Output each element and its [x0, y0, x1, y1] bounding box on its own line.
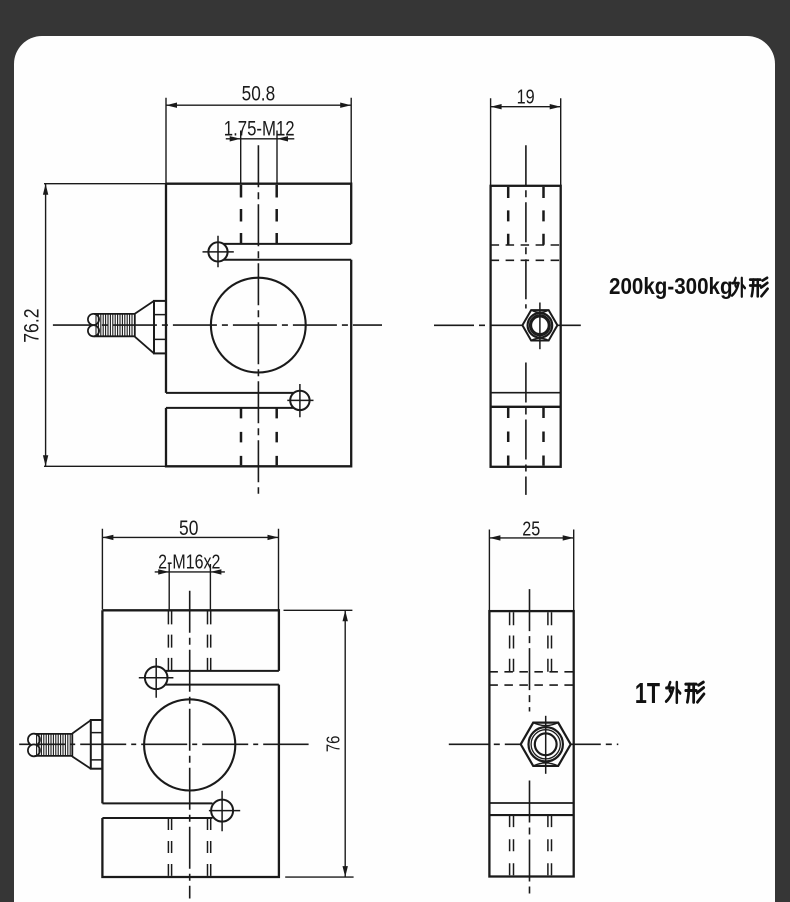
rod junction line — [134, 314, 136, 338]
nut chamfer arcs — [533, 723, 558, 766]
side body rect — [491, 186, 561, 467]
big center hole — [144, 699, 235, 790]
side horizontal center line — [449, 743, 619, 745]
big center hole — [211, 278, 306, 373]
dimension 76 extension lines — [284, 610, 354, 877]
dimension 25 arrows — [489, 535, 573, 540]
rod collar — [91, 720, 103, 769]
svg-text:19: 19 — [517, 86, 535, 108]
dimension 76 line — [344, 610, 346, 877]
nut hexagon — [522, 310, 557, 340]
dimension 50.8 line — [166, 104, 351, 106]
dimension 76.2 line — [45, 184, 47, 467]
dimension 50 extension lines — [102, 529, 278, 610]
upper slot hole crosshair — [203, 236, 234, 267]
dimension 19 extension lines — [491, 98, 561, 185]
threaded hole hidden lines bottom (side) — [508, 408, 543, 466]
upper slot hole crosshair — [139, 658, 174, 698]
rod tip arcs — [88, 314, 99, 325]
side body rect — [489, 611, 573, 876]
threaded hole hidden double lines bottom — [168, 818, 210, 876]
nut circles — [528, 313, 553, 338]
lower slot hole crosshair — [287, 384, 313, 417]
lower slot visible lines — [489, 802, 573, 804]
rod cone — [72, 720, 91, 769]
rod junction line — [71, 733, 73, 757]
dimension 19 arrows — [491, 104, 561, 109]
svg-text:76: 76 — [323, 736, 344, 752]
rod thread hatching — [96, 314, 132, 336]
threaded hole hidden lines top — [241, 185, 277, 244]
dimension 76 arrows — [343, 610, 348, 877]
rod thread body — [94, 314, 135, 336]
lower slot lines — [166, 393, 296, 408]
nut hexagon — [521, 723, 571, 766]
dimension 50.8 arrows — [166, 103, 351, 108]
label glyph 形 (bottom) — [686, 682, 704, 702]
dimension 1.75-M12 extension lines — [241, 131, 277, 184]
dimension 50 arrows — [102, 535, 278, 540]
body outline S-block — [102, 610, 279, 877]
label glyph 外 (top) — [732, 278, 745, 297]
side vertical center line — [525, 145, 527, 495]
dimension 25 line — [489, 537, 573, 539]
threaded hole hidden double lines bottom (side) — [510, 815, 552, 875]
svg-text:50: 50 — [179, 518, 198, 541]
nut circles — [529, 727, 563, 761]
dimension 76.2 extension lines — [44, 184, 166, 467]
upper slot hidden lines — [491, 245, 561, 260]
nut chamfer arcs — [531, 310, 549, 340]
rod cone — [135, 301, 154, 354]
horizontal center line — [19, 743, 308, 745]
upper slot end hole — [208, 242, 227, 261]
svg-text:76.2: 76.2 — [20, 308, 44, 342]
dimension 50.8 extension lines — [166, 98, 351, 183]
svg-text:1T: 1T — [635, 678, 661, 710]
rod thread body — [35, 734, 73, 756]
nut vertical crosshair — [539, 303, 541, 350]
svg-text:50.8: 50.8 — [242, 83, 276, 106]
label glyph 外 (bottom) — [666, 682, 680, 702]
vertical center line — [257, 145, 259, 493]
dimension 1.75-M12 line — [226, 138, 294, 140]
svg-text:1.75-M12: 1.75-M12 — [224, 118, 295, 141]
threaded hole hidden lines — [508, 187, 543, 245]
threaded hole hidden double lines top — [168, 611, 210, 671]
upper slot end hole — [145, 667, 168, 690]
dimension 76.2 arrows — [43, 184, 48, 467]
label glyph 形 (top) — [750, 278, 767, 297]
lower slot lines — [102, 803, 212, 818]
dimension 2-M16x2 arrows — [158, 569, 221, 574]
svg-text:25: 25 — [522, 518, 540, 540]
svg-text:2-M16x2: 2-M16x2 — [158, 551, 220, 573]
dimension 2-M16x2 line — [155, 571, 225, 573]
side horizontal center line — [434, 324, 581, 326]
side vertical center line — [529, 589, 531, 896]
dimension 2-M16x2 extension lines — [169, 564, 210, 610]
lower slot hole crosshair — [209, 791, 240, 832]
dimension 25 extension lines — [489, 530, 573, 611]
lower slot end hole — [211, 800, 233, 822]
lower slot visible lines — [491, 392, 561, 394]
upper slot lines — [223, 244, 352, 260]
vertical center line — [189, 591, 191, 899]
rod thread hatching — [37, 734, 71, 756]
rod tip arcs — [28, 734, 40, 746]
upper slot lines — [166, 671, 279, 685]
nut vertical crosshair — [545, 716, 547, 774]
rod collar flats — [154, 315, 166, 340]
rod collar flats — [91, 733, 103, 760]
horizontal center line — [53, 324, 382, 326]
svg-text:200kg-300kg: 200kg-300kg — [609, 273, 733, 300]
threaded hole hidden double lines — [510, 612, 552, 672]
rod collar — [154, 301, 166, 354]
dimension 1.75-M12 arrows — [230, 136, 288, 141]
threaded hole hidden lines bottom — [241, 408, 277, 465]
dimension 50 line — [102, 536, 278, 538]
body outline S-block — [166, 184, 351, 467]
upper slot hidden lines — [489, 672, 573, 685]
dimension 19 line — [491, 106, 561, 108]
lower slot end hole — [290, 391, 309, 410]
